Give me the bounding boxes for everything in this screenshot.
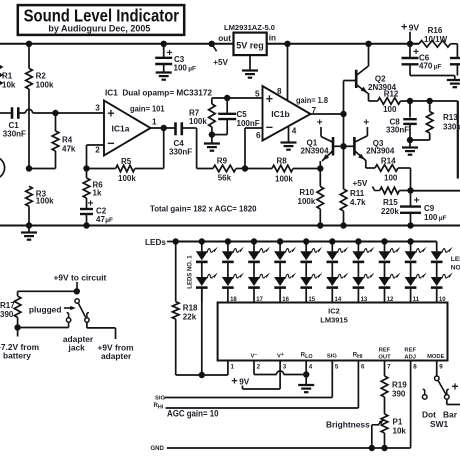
node +5V tap xyxy=(209,41,217,52)
svg-text:LEDS NO. 1: LEDS NO. 1 xyxy=(187,255,193,289)
svg-text:47k: 47k xyxy=(62,145,76,154)
svg-text:3: 3 xyxy=(283,364,287,371)
svg-text:9V: 9V xyxy=(239,378,250,387)
svg-text:6: 6 xyxy=(256,131,261,140)
ground (pin4) xyxy=(298,375,314,393)
svg-text:8: 8 xyxy=(413,364,417,371)
label pin1 number spacing xyxy=(0,0,1,1)
svg-text:1k: 1k xyxy=(93,189,102,198)
svg-text:IC2: IC2 xyxy=(328,306,340,315)
wire battery top rail xyxy=(18,290,77,292)
svg-text:R18: R18 xyxy=(183,304,198,313)
svg-text:R19: R19 xyxy=(392,381,407,390)
svg-text:OUT: OUT xyxy=(378,354,391,360)
svg-text:330nF: 330nF xyxy=(169,148,192,157)
node R18 top xyxy=(173,238,179,244)
resistor R8 100k xyxy=(245,157,320,184)
wire pin4 RLO xyxy=(305,361,307,375)
capacitor C9 100uF xyxy=(400,191,447,226)
wire hop (C1 to IC1a over R2) xyxy=(25,109,104,113)
op-amp IC1b xyxy=(255,86,317,141)
wire LED anode rail xyxy=(176,241,437,243)
svg-text:2N3904: 2N3904 xyxy=(301,147,330,156)
LED pair column 3 xyxy=(248,238,270,302)
resistor R3 100k xyxy=(26,186,54,225)
ground (C8) xyxy=(402,140,418,155)
svg-text:R11: R11 xyxy=(350,189,365,198)
svg-text:3: 3 xyxy=(95,104,100,113)
node bias divider xyxy=(26,165,32,171)
svg-text:+: + xyxy=(363,118,369,129)
capacitor C2 47uF xyxy=(80,198,113,226)
capacitor C1 330nF xyxy=(0,107,26,138)
svg-text:R8: R8 xyxy=(277,157,288,166)
svg-text:AGC gain= 10: AGC gain= 10 xyxy=(167,409,219,419)
node R7 bottom xyxy=(209,131,215,137)
svg-text:SW1: SW1 xyxy=(430,419,448,429)
svg-text:10/1W: 10/1W xyxy=(424,35,448,44)
ground (C6/C7) xyxy=(447,76,460,88)
LED pair column 4 xyxy=(274,238,296,302)
svg-text:2: 2 xyxy=(95,146,100,155)
svg-text:100k: 100k xyxy=(275,175,293,184)
P1 wiper xyxy=(372,418,385,448)
node pin1 junction xyxy=(199,372,205,378)
svg-text:+: + xyxy=(107,107,114,121)
svg-text:+: + xyxy=(231,376,237,388)
node Q2 collector xyxy=(365,41,371,47)
svg-text:R10: R10 xyxy=(299,188,314,197)
svg-text:330nF: 330nF xyxy=(386,125,409,134)
svg-text:330nF: 330nF xyxy=(3,130,26,139)
svg-text:−: − xyxy=(266,121,273,135)
svg-text:jack: jack xyxy=(68,343,86,353)
node P1 bottom xyxy=(381,445,387,451)
resistor R19 390 xyxy=(381,361,407,415)
svg-text:47: 47 xyxy=(96,215,105,224)
svg-text:100: 100 xyxy=(424,213,438,222)
switch SW1 mode xyxy=(422,361,460,405)
regulator U3 LM2931AZ-5.0 xyxy=(218,23,276,55)
svg-text:Total gain= 182 x AGC= 1820: Total gain= 182 x AGC= 1820 xyxy=(150,203,257,213)
svg-text:REF: REF xyxy=(379,347,391,353)
wire pin2 to ground node xyxy=(254,361,306,375)
svg-text:+: + xyxy=(317,118,323,129)
svg-text:2: 2 xyxy=(257,364,261,371)
wire +9V rail xyxy=(267,43,419,45)
node transistor bases xyxy=(340,143,346,149)
node switch top xyxy=(74,288,80,294)
label +9V to circuit xyxy=(54,272,107,291)
svg-text:LEDs: LEDs xyxy=(145,238,166,247)
svg-text:10k: 10k xyxy=(393,427,407,436)
wire AGC to right edge xyxy=(410,101,458,179)
capacitor C3 100uF xyxy=(155,44,196,73)
svg-text:100k: 100k xyxy=(36,196,54,205)
resistor R12 100 xyxy=(369,90,411,115)
svg-text:MODE: MODE xyxy=(427,354,445,360)
svg-text:in: in xyxy=(269,34,276,43)
svg-text:100k: 100k xyxy=(118,174,136,183)
node pin4 ground xyxy=(303,371,309,377)
svg-text:Brightness: Brightness xyxy=(326,419,370,429)
svg-text:GND: GND xyxy=(151,446,165,452)
svg-text:R2: R2 xyxy=(36,72,47,81)
wire IC1b inverting input xyxy=(245,128,263,169)
svg-text:−: − xyxy=(107,137,114,151)
svg-text:battery: battery xyxy=(3,351,31,361)
svg-text:LM3915: LM3915 xyxy=(320,315,348,324)
transistor Q3 2N3904 xyxy=(344,118,395,168)
svg-text:100k: 100k xyxy=(189,117,207,126)
wire adapter feed xyxy=(87,322,116,339)
svg-text:10k: 10k xyxy=(2,81,16,90)
wire battery rail xyxy=(18,328,69,337)
node wiper ground xyxy=(369,445,375,451)
svg-text:R17: R17 xyxy=(0,301,15,310)
svg-text:+5V: +5V xyxy=(353,179,368,188)
svg-text:220k: 220k xyxy=(381,207,399,216)
svg-text:5V reg: 5V reg xyxy=(236,41,264,51)
label +9V from adapter xyxy=(98,342,134,361)
resistor R4 47k xyxy=(29,113,76,169)
svg-text:100: 100 xyxy=(174,64,188,73)
node IC1b pin8 supply xyxy=(284,41,290,47)
wire LED1 cathode to pin1 xyxy=(176,288,228,375)
node IC1a output xyxy=(161,125,167,131)
node R13 top xyxy=(427,98,433,104)
label REF ADJ xyxy=(404,347,416,360)
label LEDS NO. 10 (clipped) xyxy=(451,256,460,271)
node R11 ground xyxy=(340,222,346,228)
Q3 emitter arrow xyxy=(358,154,366,162)
wire IC1a output xyxy=(151,127,176,129)
node C2 ground xyxy=(83,222,89,228)
svg-text:C1: C1 xyxy=(9,121,20,130)
svg-text:5: 5 xyxy=(255,90,260,99)
node +9V entry xyxy=(407,41,413,47)
LED pair column 10 xyxy=(431,242,453,303)
svg-text:100: 100 xyxy=(384,174,398,183)
svg-text:gain= 101: gain= 101 xyxy=(130,105,165,114)
LED pair column 1 xyxy=(196,238,218,302)
label LEDs xyxy=(145,238,176,247)
resistor R11 4.7k xyxy=(340,189,366,226)
node C3 top xyxy=(161,41,167,47)
svg-text:+: + xyxy=(414,195,420,207)
ground (rail) xyxy=(21,226,37,240)
svg-text:4.7k: 4.7k xyxy=(350,198,366,207)
node IC1a fb xyxy=(83,165,89,171)
svg-text:SIG: SIG xyxy=(327,354,337,360)
node R3 ground xyxy=(26,222,32,228)
label REF OUT xyxy=(378,347,391,360)
label +9V (IC2) xyxy=(231,376,249,388)
LED pair column 5 xyxy=(300,238,322,302)
svg-text:R1: R1 xyxy=(2,72,13,81)
capacitor C5 100nF xyxy=(212,98,260,135)
node C5 top xyxy=(224,95,230,101)
LED pair column 7 xyxy=(352,238,374,302)
label adapter jack xyxy=(63,334,94,353)
svg-text:390: 390 xyxy=(0,310,14,319)
resistor R5 100k xyxy=(87,128,164,183)
LED pair column 2 xyxy=(222,238,244,302)
svg-text:+: + xyxy=(401,22,407,34)
svg-text:+: + xyxy=(88,198,94,210)
svg-text:2N3904: 2N3904 xyxy=(366,147,395,156)
svg-text:out: out xyxy=(218,34,231,43)
svg-text:100k: 100k xyxy=(36,81,54,90)
svg-text:LM2931AZ-5.0: LM2931AZ-5.0 xyxy=(224,23,275,32)
LED pair column 8 xyxy=(379,238,401,302)
wire C6/C7 ground link xyxy=(410,75,455,77)
svg-text:IC1a: IC1a xyxy=(112,124,130,134)
svg-text:Bar: Bar xyxy=(443,409,458,419)
resistor R2 100k xyxy=(26,44,54,169)
svg-text:C9: C9 xyxy=(424,204,435,213)
svg-text:by Audioguru Dec, 2005: by Audioguru Dec, 2005 xyxy=(48,23,150,33)
svg-text:+5V: +5V xyxy=(213,58,228,67)
svg-text:5: 5 xyxy=(335,364,339,371)
svg-text:7: 7 xyxy=(387,364,391,371)
Q2 emitter arrow xyxy=(361,87,369,95)
svg-text:µF: µF xyxy=(188,66,196,73)
node C9 top xyxy=(407,187,413,193)
wire pin3 V+ feed xyxy=(243,361,281,390)
svg-text:+: + xyxy=(266,92,273,106)
ground (R7/C5) xyxy=(204,135,220,151)
Q1 emitter arrow xyxy=(321,154,329,162)
svg-text:Dot: Dot xyxy=(422,409,436,419)
wire +5V rail xyxy=(0,43,234,45)
node R2 top xyxy=(26,41,32,47)
svg-text:R12: R12 xyxy=(384,90,399,99)
wire IC1b V+ pin8 xyxy=(287,44,289,101)
svg-text:1: 1 xyxy=(152,118,157,127)
wire GND line to pin8 xyxy=(167,361,411,449)
svg-text:µF: µF xyxy=(105,217,113,224)
svg-text:plugged: plugged xyxy=(29,304,62,314)
svg-text:4: 4 xyxy=(309,364,313,371)
capacitor C7 (clipped at right) xyxy=(450,44,460,76)
svg-text:+: + xyxy=(167,47,173,59)
svg-text:+9V to circuit: +9V to circuit xyxy=(54,272,107,282)
capacitor C6 470uF xyxy=(402,44,442,76)
transistor Q2 2N3904 xyxy=(344,44,397,114)
svg-text:100nF: 100nF xyxy=(237,119,260,128)
svg-text:R16: R16 xyxy=(428,26,443,35)
svg-text:9: 9 xyxy=(439,364,443,371)
node battery rail xyxy=(14,324,20,330)
svg-text:R15: R15 xyxy=(383,198,398,207)
capacitor C4 330nF xyxy=(169,122,197,156)
svg-text:R4: R4 xyxy=(62,136,73,145)
svg-text:330k: 330k xyxy=(443,123,460,132)
IC U2 LM3915 xyxy=(218,303,448,361)
pin stubs 2-9 numbers xyxy=(231,364,444,371)
node IC1b inverting xyxy=(242,165,248,171)
microphone (clipped) xyxy=(0,157,5,178)
svg-text:R5: R5 xyxy=(121,157,132,166)
svg-text:µF: µF xyxy=(439,215,447,222)
wire IC1a inverting input xyxy=(87,145,105,169)
svg-text:8: 8 xyxy=(277,87,282,96)
resistor R1 10k (clipped) xyxy=(0,65,16,90)
LED pair column 9 xyxy=(405,238,427,302)
label battery voltage xyxy=(0,342,39,361)
svg-text:470: 470 xyxy=(419,61,433,70)
resistor R13 330k xyxy=(410,101,460,140)
label +9V xyxy=(401,22,419,44)
resistor R16 10/1W xyxy=(410,26,457,47)
node R10 ground xyxy=(317,222,323,228)
node R4 top xyxy=(52,110,58,116)
resistor R6 1k xyxy=(83,169,103,209)
svg-text:100k: 100k xyxy=(298,197,316,206)
wire pin6 RHI xyxy=(166,361,359,409)
wire pin5 SIG xyxy=(165,361,333,398)
svg-text:56k: 56k xyxy=(218,174,232,183)
node C8 bottom xyxy=(407,137,413,143)
node Q1 emitter xyxy=(317,165,323,171)
node C9 ground xyxy=(407,222,413,228)
svg-text:NO. 1: NO. 1 xyxy=(451,264,460,271)
label plugged xyxy=(29,304,76,314)
svg-text:P1: P1 xyxy=(393,418,403,427)
svg-text:9V: 9V xyxy=(409,23,420,33)
wire IC1b output xyxy=(311,113,344,115)
svg-text:6: 6 xyxy=(361,364,365,371)
title box xyxy=(18,5,184,35)
svg-text:R14: R14 xyxy=(381,157,396,166)
svg-text:100: 100 xyxy=(383,105,397,114)
svg-text:adapter: adapter xyxy=(101,351,132,361)
svg-text:390: 390 xyxy=(392,390,406,399)
svg-text:LEDS: LEDS xyxy=(451,256,460,263)
wire base bus xyxy=(343,114,345,189)
svg-text:REF: REF xyxy=(404,347,416,353)
resistor R18 22k xyxy=(172,242,198,376)
svg-text:SIG: SIG xyxy=(155,396,165,402)
potentiometer P1 10k xyxy=(381,414,406,448)
svg-text:R9: R9 xyxy=(217,156,228,165)
svg-text:1: 1 xyxy=(231,364,235,371)
resistor R17 390 (clipped) xyxy=(0,291,21,327)
svg-text:+: + xyxy=(452,380,459,394)
node IC1b output xyxy=(340,111,346,117)
resistor R15 220k xyxy=(373,187,411,217)
resistor R14 100 xyxy=(366,157,411,191)
svg-text:R13: R13 xyxy=(443,113,458,122)
wire C9 node to right edge xyxy=(411,190,460,192)
svg-text:22k: 22k xyxy=(183,313,197,322)
svg-text:C5: C5 xyxy=(237,110,248,119)
resistor R9 56k xyxy=(197,128,245,183)
svg-text:IC1b: IC1b xyxy=(271,109,289,119)
svg-text:gain= 1.8: gain= 1.8 xyxy=(296,96,329,105)
op-amp IC1a xyxy=(95,101,157,156)
transistor Q1 2N3904 xyxy=(301,118,344,169)
svg-text:µF: µF xyxy=(434,63,442,70)
svg-text:ADJ: ADJ xyxy=(404,354,416,360)
wire ground rail xyxy=(0,225,460,227)
svg-text:IC1 Dual opamp= MC33172: IC1 Dual opamp= MC33172 xyxy=(105,89,213,98)
ground (C3) xyxy=(156,73,172,80)
jack switch (power) xyxy=(66,299,89,328)
node C8 top xyxy=(407,98,413,104)
resistor R10 100k xyxy=(298,169,324,226)
svg-text:4: 4 xyxy=(292,127,297,136)
ground (regulator) xyxy=(242,55,258,78)
ground (IC1b pin4) xyxy=(281,126,297,150)
resistor R7 100k xyxy=(189,98,263,135)
LED pair column 6 xyxy=(326,238,348,302)
capacitor C8 330nF xyxy=(386,101,417,140)
label Brightness xyxy=(326,419,370,429)
